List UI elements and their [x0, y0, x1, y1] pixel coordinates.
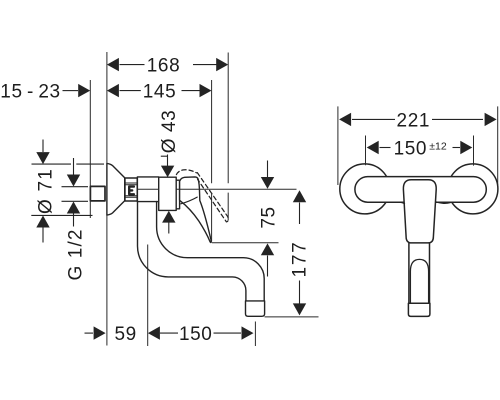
dimension 145	[107, 84, 212, 97]
svg-text:15 - 23: 15 - 23	[0, 82, 60, 103]
dimension 221	[339, 113, 497, 126]
raised lever extension line (168)	[227, 53, 229, 221]
svg-text:G 1/2: G 1/2	[66, 229, 87, 281]
svg-text:Ø 43: Ø 43	[159, 110, 180, 154]
svg-text:150: 150	[179, 324, 213, 345]
connecting body bar	[355, 177, 486, 203]
handle crease line	[181, 197, 197, 204]
outlet axis extension line (150)	[254, 322, 256, 347]
union nut	[125, 178, 137, 201]
svg-text:±12: ±12	[429, 140, 447, 152]
spout S-pipe (side view)	[137, 202, 264, 301]
G1/2 square nipple	[90, 186, 105, 201]
dimension 177	[293, 190, 306, 315]
dimension diameter 71	[31, 140, 104, 243]
dimension G 1/2	[62, 158, 89, 227]
cartridge ring	[176, 180, 179, 209]
nut chamfer lines	[125, 183, 137, 197]
valve underbody	[137, 177, 158, 202]
dimension diameter 43	[161, 155, 176, 234]
dimension 75	[261, 161, 274, 277]
150 right extension	[473, 136, 475, 166]
bar-to-body fillets	[400, 202, 451, 204]
150 left extension	[365, 136, 367, 166]
dimension 150 (bottom)	[160, 326, 254, 339]
spout bottom level line (177 bottom)	[265, 316, 319, 318]
escutcheon cone (side view)	[107, 163, 125, 215]
mixer body block	[159, 177, 177, 210]
221 left extension	[337, 106, 339, 185]
nut knurl mark	[129, 187, 134, 195]
svg-text:145: 145	[143, 82, 177, 103]
front view extension lines	[338, 106, 498, 185]
dimension 15 - 23	[63, 84, 91, 97]
left wall escutcheon (front)	[340, 164, 390, 214]
spout drop axis extension line	[147, 245, 149, 347]
svg-text:177: 177	[289, 240, 310, 277]
svg-text:221: 221	[397, 110, 431, 131]
centreline through body	[138, 188, 297, 190]
lever tip extension line (145)	[211, 80, 213, 242]
spout tube (front)	[409, 243, 430, 303]
svg-text:59: 59	[115, 324, 137, 345]
handle head and spout outline (front)	[403, 180, 436, 243]
svg-text:168: 168	[147, 56, 181, 77]
svg-text:75: 75	[259, 206, 280, 228]
dimension 168	[107, 58, 228, 71]
lever-tip level line (75 bottom)	[212, 242, 279, 244]
wall face extension line	[106, 52, 108, 346]
221 right extension	[497, 106, 499, 185]
spout aerator tip	[246, 301, 265, 316]
aerator cap (front)	[408, 303, 430, 316]
lever handle raised (dashed)	[176, 170, 228, 222]
svg-text:Ø 71: Ø 71	[36, 168, 57, 214]
spout inner arch	[410, 259, 428, 303]
thin reference / projection lines	[90, 52, 318, 346]
dimension 59	[85, 326, 160, 339]
lever handle (down position)	[180, 177, 212, 243]
dimension 150 +/-12	[367, 141, 473, 154]
right wall escutcheon (front)	[448, 164, 498, 214]
svg-text:150: 150	[394, 138, 428, 159]
nipple face extension line	[89, 80, 91, 218]
